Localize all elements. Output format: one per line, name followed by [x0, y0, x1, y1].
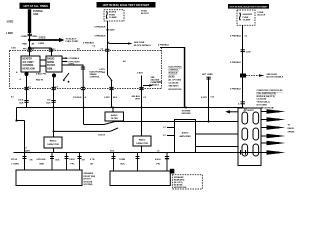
svg-text:4 BLK PPL: 4 BLK PPL — [36, 73, 47, 76]
svg-text:HOT IN RUN, BULB TEST OR START: HOT IN RUN, BULB TEST OR START — [103, 3, 150, 7]
svg-text:10 AMP: 10 AMP — [243, 19, 251, 22]
svg-text:1 RED: 1 RED — [21, 36, 28, 38]
svg-text:SEE FUSE: SEE FUSE — [267, 74, 278, 76]
svg-text:BLK: BLK — [56, 160, 61, 162]
svg-text:4 GRY: 4 GRY — [201, 96, 208, 99]
svg-text:FRONT (RH): FRONT (RH) — [84, 176, 96, 178]
svg-text:FUEL PUMP: FUEL PUMP — [66, 41, 79, 43]
svg-text:S331: S331 — [110, 150, 114, 152]
svg-text:AUDIO: AUDIO — [182, 132, 189, 135]
svg-text:1 BLK: 1 BLK — [69, 159, 75, 161]
svg-text:A/C CONT: A/C CONT — [23, 61, 35, 64]
svg-text:CONTROL: CONTROL — [90, 77, 101, 79]
svg-text:MICROFICHE: MICROFICHE — [169, 89, 183, 91]
svg-text:1 C: 1 C — [163, 127, 167, 129]
svg-text:BLK: BLK — [46, 102, 51, 104]
svg-text:1 RED: 1 RED — [6, 33, 13, 35]
svg-text:8 PK BLK: 8 PK BLK — [37, 159, 47, 161]
svg-text:FUSE: FUSE — [243, 17, 249, 19]
svg-text:SPARK: SPARK — [90, 73, 98, 76]
svg-text:RED: RED — [22, 43, 27, 45]
svg-text:GROUND: GROUND — [181, 113, 191, 115]
svg-text:ASM: ASM — [47, 67, 52, 70]
svg-text:10 AMP: 10 AMP — [109, 16, 117, 19]
svg-text:150 A: 150 A — [18, 99, 24, 102]
svg-text:MODULE: MODULE — [169, 73, 179, 75]
svg-text:MICROFICHE: MICROFICHE — [261, 107, 274, 109]
svg-text:S208: S208 — [110, 30, 116, 32]
svg-text:1 RED: 1 RED — [38, 43, 45, 45]
svg-text:3 RED: 3 RED — [7, 22, 14, 24]
svg-text:Y8 BLK (48-2): Y8 BLK (48-2) — [257, 101, 270, 104]
svg-text:NOISE: NOISE — [47, 62, 55, 64]
svg-text:1.7 BRN: 1.7 BRN — [11, 164, 19, 166]
svg-text:TO ELECT: TO ELECT — [66, 38, 77, 40]
svg-text:MICROFICHE: MICROFICHE — [174, 187, 187, 189]
svg-text:G331 B: G331 B — [98, 134, 105, 136]
svg-text:COMPUTER CONTROLLED: COMPUTER CONTROLLED — [257, 90, 284, 92]
svg-text:5 PNK/BLK: 5 PNK/BLK — [230, 36, 241, 38]
svg-text:SYSTEM): SYSTEM) — [84, 184, 93, 186]
svg-text:(IF NOT: (IF NOT — [84, 179, 92, 181]
svg-text:RADIO: RADIO — [139, 139, 146, 142]
svg-text:RADIO: RADIO — [288, 127, 295, 130]
svg-text:S R: S R — [82, 160, 86, 162]
svg-text:W/ BOSE: W/ BOSE — [84, 181, 93, 183]
svg-text:FILTER: FILTER — [111, 118, 119, 120]
svg-text:8 TN: 8 TN — [90, 159, 95, 161]
svg-text:RADIO: RADIO — [47, 58, 55, 61]
svg-text:FILTER: FILTER — [47, 65, 55, 67]
svg-text:BLOCK: BLOCK — [258, 15, 266, 17]
svg-text:(ECM): (ECM) — [169, 76, 175, 78]
svg-text:NOT USED: NOT USED — [257, 105, 268, 107]
svg-text:6 TAN/BLK: 6 TAN/BLK — [69, 57, 80, 60]
svg-text:C2: C2 — [157, 150, 159, 152]
svg-text:C2 (48-49): C2 (48-49) — [169, 82, 179, 85]
svg-text:C2 (48-49): C2 (48-49) — [257, 98, 267, 101]
svg-text:TO: TO — [288, 125, 291, 127]
svg-text:SEE FUSE: SEE FUSE — [134, 42, 145, 44]
svg-text:SEE NEXT: SEE NEXT — [169, 86, 180, 88]
svg-text:5 PNK/BLK: 5 PNK/BLK — [230, 62, 241, 64]
svg-text:BRN: BRN — [40, 164, 45, 166]
svg-text:(8L OF 8 WS): (8L OF 8 WS) — [169, 80, 182, 82]
svg-text:HOT IN RUN, BULB TEST OR START: HOT IN RUN, BULB TEST OR START — [230, 6, 269, 9]
svg-text:RADIO: RADIO — [50, 140, 57, 143]
svg-text:RED: RED — [33, 36, 38, 38]
svg-text:5 PNK/BLK: 5 PNK/BLK — [95, 26, 106, 28]
svg-text:ECM-B: ECM-B — [109, 12, 117, 14]
svg-text:SPEAKER: SPEAKER — [84, 172, 94, 175]
svg-text:BLOCK DETAILS: BLOCK DETAILS — [134, 44, 151, 47]
svg-text:ELECTRONIC: ELECTRONIC — [169, 67, 183, 69]
svg-text:6 PPL: 6 PPL — [99, 69, 106, 71]
svg-text:150 BLK: 150 BLK — [73, 97, 82, 99]
svg-text:5 PNK/BLK: 5 PNK/BLK — [230, 88, 241, 90]
svg-text:LINK: LINK — [33, 14, 39, 16]
svg-text:5 PNK/BLK: 5 PNK/BLK — [95, 35, 106, 37]
svg-text:NOT USED: NOT USED — [202, 74, 213, 76]
svg-text:GAUGES: GAUGES — [243, 13, 253, 16]
svg-text:BLK: BLK — [19, 102, 24, 104]
svg-text:AMPLIFIER: AMPLIFIER — [179, 135, 191, 138]
svg-text:RADIO: RADIO — [24, 149, 31, 152]
svg-text:CAPACITOR: CAPACITOR — [136, 142, 149, 145]
svg-text:BLOCK: BLOCK — [141, 13, 149, 15]
svg-text:MODULE (8A OF 8): MODULE (8A OF 8) — [257, 95, 276, 98]
svg-text:PPL/A: PPL/A — [11, 158, 17, 161]
svg-text:5 PNK/BLK: 5 PNK/BLK — [83, 43, 94, 45]
svg-text:SYSTEM: SYSTEM — [182, 110, 191, 112]
svg-text:HEAD ASM: HEAD ASM — [23, 67, 35, 70]
svg-text:FUSE: FUSE — [109, 14, 115, 16]
svg-text:4 BLK: 4 BLK — [155, 158, 161, 161]
svg-text:COMN: COMN — [119, 159, 126, 161]
svg-text:CAPACITOR: CAPACITOR — [47, 143, 60, 146]
svg-text:BLK: BLK — [113, 97, 118, 99]
svg-text:RADIO: RADIO — [111, 114, 118, 117]
svg-text:WHT: WHT — [135, 99, 140, 101]
svg-text:SPKRS: SPKRS — [288, 132, 296, 134]
svg-text:CONTROL: CONTROL — [169, 70, 180, 72]
svg-text:COIL IGNITION (C3I): COIL IGNITION (C3I) — [257, 93, 277, 95]
svg-text:2 RED: 2 RED — [39, 38, 46, 40]
svg-text:CONTROL: CONTROL — [23, 65, 35, 67]
svg-text:BLK: BLK — [121, 164, 126, 166]
svg-text:5 PPL: 5 PPL — [104, 97, 111, 99]
svg-text:2 C: 2 C — [163, 135, 167, 137]
svg-text:RED W: RED W — [36, 80, 43, 82]
svg-text:8 PPL: 8 PPL — [69, 64, 76, 66]
svg-text:4 PNK/BLK: 4 PNK/BLK — [158, 43, 169, 46]
svg-text:HOT AT ALL TIMES: HOT AT ALL TIMES — [23, 4, 48, 8]
svg-text:450 BLK: 450 BLK — [132, 95, 141, 98]
svg-text:BLOCK DETAILS: BLOCK DETAILS — [267, 76, 284, 79]
svg-text:HEATER: HEATER — [23, 58, 33, 61]
svg-text:A/C RESTR: A/C RESTR — [244, 109, 255, 112]
svg-text:3 BLK: 3 BLK — [137, 73, 144, 75]
